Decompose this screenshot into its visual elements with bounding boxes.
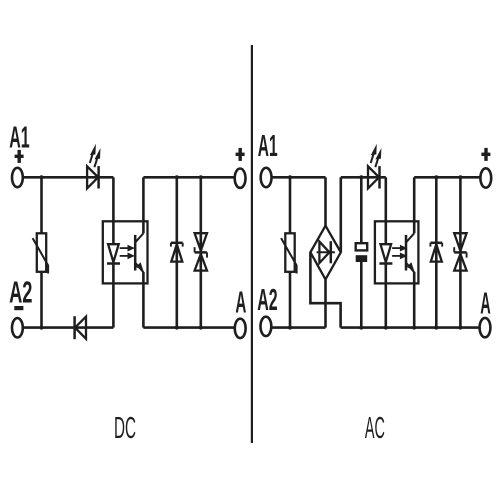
svg-text:A1: A1 [258, 129, 278, 163]
svg-text:A2: A2 [257, 283, 277, 317]
terminal A (DC output, right bottom) [235, 319, 246, 338]
junction: phototransistor emitter tap on bottom rail (AC) [412, 326, 416, 330]
wire: corner down from rectified rail into optocoupler anode (AC) [384, 177, 387, 221]
light emission arrows of LED V1 (DC) [90, 144, 101, 167]
suppressor diode V3 across output (DC) [171, 177, 183, 327]
wire: rectified bottom rail (AC) [341, 326, 480, 329]
smoothing capacitor C1 positive plate (AC) [356, 243, 368, 250]
plus polarity mark at A1 (DC) [15, 150, 24, 163]
bridge rectifier G1 diamond (AC) [310, 226, 340, 280]
terminal A2 (AC input, left bottom) [261, 317, 272, 336]
optocoupler U2 emitter LED (AC) [379, 221, 392, 283]
terminal + (AC output, right top) [480, 168, 491, 187]
wire: bridge DC-plus output, right vertex up to top rail (AC) [339, 177, 342, 252]
junction: transient suppressor tap on plus rail (AC) [458, 175, 462, 179]
optocoupler U1 emitter LED (DC) [107, 221, 120, 283]
wire: bridge DC-minus output, left vertex stair-step to bottom rail (AC) [310, 252, 340, 327]
wire: varistor branch lower segment (AC) [289, 272, 292, 328]
wire: top rail from A1 terminal to corner above optocoupler (DC) [23, 176, 114, 179]
junction: capacitor tap on bottom rail (AC) [359, 326, 363, 330]
wire: top rail from A1 terminal to corner above bridge (AC) [272, 176, 326, 179]
junction: varistor tap on bottom rail (AC) [288, 326, 292, 330]
optocoupler U1 light coupling arrows (DC) [120, 245, 135, 260]
light emission arrows of LED V5 (AC) [371, 144, 382, 167]
varistor R1 (DC surge protection) [33, 233, 49, 273]
optocoupler U2 light coupling arrows (AC) [392, 245, 407, 260]
junction: varistor tap on top rail (DC) [40, 175, 44, 179]
wire: rectified top rail from bridge to corner above optocoupler (AC) [341, 176, 386, 179]
optocoupler U1 body (DC) [103, 221, 148, 283]
LED indicator V1 in series on top rail (DC) [87, 166, 99, 188]
smoothing capacitor C1 negative plate (AC) [356, 255, 368, 262]
bidirectional transient suppressor V4 across output (DC) [195, 177, 207, 327]
junction: smoothing capacitor tap on rectified rail (AC) [359, 175, 363, 179]
label A at output terminal (AC) [480, 286, 491, 320]
svg-text:DC: DC [114, 411, 136, 445]
junction: suppressor diode tap on bottom rail (AC) [434, 326, 438, 330]
divider line between DC and AC schematics [251, 45, 253, 443]
junction: suppressor diode tap on plus rail (AC) [434, 175, 438, 179]
wire: optocoupler LED cathode down to bottom rail (AC) [384, 283, 387, 327]
wire: corner down from A1 rail to bridge top vertex (AC) [324, 177, 327, 225]
wire: bridge bottom vertex down to A2 rail (AC) [324, 279, 327, 327]
junction: transient suppressor tap on bottom rail (AC) [458, 326, 462, 330]
junction: varistor tap on top rail (AC) [288, 175, 292, 179]
terminal A2 (DC input, left bottom) [12, 318, 23, 337]
suppressor diode V6 across output (AC) [430, 177, 442, 327]
junction: optocoupler LED cathode tap on bottom rail (AC) [384, 326, 388, 330]
optocoupler U2 body (AC) [375, 221, 419, 283]
label DC (left schematic caption) [114, 411, 136, 445]
junction: transient suppressor tap on plus rail (DC) [199, 175, 203, 179]
svg-text:A2: A2 [9, 276, 32, 310]
wire: phototransistor collector up to plus rail (AC) [413, 177, 416, 233]
optocoupler U1 phototransistor (DC) [135, 233, 143, 272]
LED indicator V5 in series on rectified rail (AC) [368, 166, 380, 188]
label A at output terminal (DC) [235, 285, 246, 319]
svg-text:AC: AC [365, 411, 385, 445]
terminal A1 (DC input, left top) [12, 168, 23, 187]
terminal A1 (AC input, left top) [261, 168, 272, 187]
terminal A (AC output, right bottom) [480, 318, 491, 337]
wire: corner down from top rail into optocoupler anode (DC) [112, 177, 115, 221]
wire: phototransistor emitter down to A rail (AC) [413, 272, 416, 328]
wire: A rail bottom right (DC) [143, 326, 234, 329]
bridge rectifier G1 internal diode (AC) [317, 241, 335, 263]
wire: capacitor branch lower segment (AC) [360, 262, 363, 328]
wire: phototransistor collector up to plus rail (DC) [142, 177, 145, 233]
varistor R2 (AC surge protection) [281, 233, 297, 273]
label A2 (AC) [257, 283, 277, 317]
wire: capacitor branch upper segment (AC) [360, 177, 363, 243]
minus polarity mark at A2 (DC) [14, 306, 23, 310]
junction: suppressor diode tap on plus rail (DC) [175, 175, 179, 179]
junction: varistor tap on bottom rail (DC) [40, 326, 44, 330]
label + at output terminal (DC) [236, 148, 245, 161]
bidirectional transient suppressor V7 across output (AC) [454, 177, 466, 327]
reverse polarity protection diode V2 on bottom rail (DC) [75, 316, 86, 339]
wire: varistor branch upper segment (DC) [40, 177, 43, 233]
svg-text:A1: A1 [9, 120, 29, 154]
label + at output terminal (AC) [481, 148, 490, 161]
wire: plus rail top right (AC) [414, 176, 480, 179]
wire: phototransistor emitter down to A rail (DC) [142, 272, 145, 328]
label AC (right schematic caption) [365, 411, 385, 445]
wire: varistor branch lower segment (DC) [40, 272, 43, 328]
junction: suppressor diode tap on A rail (DC) [175, 326, 179, 330]
label A1 (AC) [258, 129, 278, 163]
svg-text:A: A [235, 285, 246, 319]
svg-text:A: A [480, 286, 491, 320]
junction: transient suppressor tap on A rail (DC) [199, 326, 203, 330]
wire: bottom rail from A2 terminal to bridge bottom wire (AC) [271, 326, 325, 329]
label A1 (DC) [9, 120, 29, 154]
optocoupler U2 phototransistor (AC) [406, 233, 414, 272]
wire: corner up from bottom rail into optocoupler cathode (DC) [112, 283, 115, 327]
wire: varistor branch upper segment (AC) [289, 177, 292, 233]
terminal + (DC output, right top) [235, 169, 246, 188]
wire: plus rail top right (DC) [143, 176, 234, 179]
wire: bottom rail from A2 terminal to corner below optocoupler (DC) [23, 326, 114, 329]
label A2 (DC) [9, 276, 32, 310]
